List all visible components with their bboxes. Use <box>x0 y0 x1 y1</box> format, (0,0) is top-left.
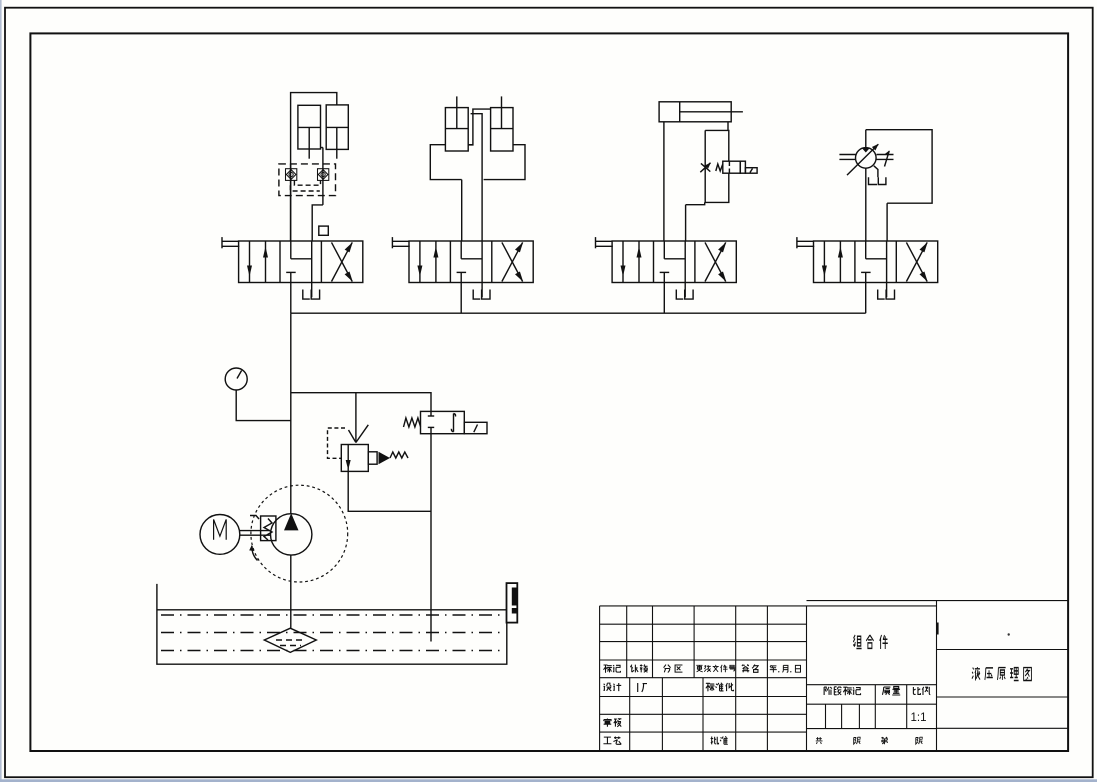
svg-text:1:1: 1:1 <box>911 712 927 724</box>
